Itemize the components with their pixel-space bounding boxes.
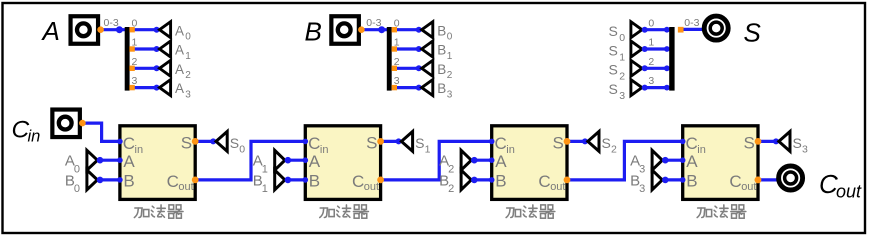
svg-text:A: A [686,152,698,171]
tunnel B3 [416,85,422,91]
tunnel A0 [154,27,160,33]
splitter SP3 bar [669,27,674,91]
tunnel B1 (feeds U2) [288,178,305,181]
tunnel A3 (feeds U4) [665,159,682,162]
svg-text:1: 1 [394,37,400,49]
svg-text:1: 1 [185,51,191,62]
svg-text:A: A [41,16,60,46]
U3 port dot S [564,138,571,145]
tunnel B2 (feeds U3) [474,178,491,181]
svg-text:3: 3 [619,90,625,102]
svg-text:2: 2 [185,70,191,81]
splitter SP2 branch 2 [394,67,419,70]
tunnel S0 (sink) [210,138,216,144]
svg-text:0: 0 [394,17,400,29]
svg-text:2: 2 [619,71,625,83]
tunnel B2 [416,65,422,71]
svg-text:C: C [167,172,179,191]
svg-text:2: 2 [448,183,454,195]
splitter SP1 branch 0 [132,28,157,31]
wire U4 Cout to pin Cout [758,178,777,181]
full-adder subcircuit U3 [492,126,567,200]
U1 label 加法器 (adder) [134,205,183,218]
svg-text:C: C [123,134,135,153]
svg-text:0: 0 [132,17,138,29]
tunnel B0 (feeds U1) [100,178,120,181]
svg-text:2: 2 [648,56,654,68]
svg-text:2: 2 [611,144,617,156]
svg-text:S: S [230,135,239,151]
wire U2 Cout to U3 Cin [381,141,492,180]
splitter SP2 branch 0 [394,28,419,31]
svg-text:3: 3 [185,89,191,100]
svg-text:3: 3 [648,75,654,87]
tunnel S1 (sink) [396,138,402,144]
U3 port dot Cin [489,139,495,145]
svg-text:1: 1 [619,51,625,63]
wire U1 Cout to U2 Cin [195,141,305,180]
svg-text:S: S [793,135,802,151]
svg-text:A: A [175,43,184,58]
U4 port dot Cout [755,177,762,184]
svg-text:0: 0 [619,32,625,44]
splitter SP2 bar [387,27,392,91]
svg-text:B: B [309,171,320,190]
wire U3 S to tunnel S2 [567,140,585,143]
svg-text:S: S [602,135,611,151]
svg-text:in: in [697,144,706,156]
U4 label 加法器 (adder) [697,205,746,218]
U1 port dot S [192,138,199,145]
svg-text:2: 2 [394,56,400,68]
svg-text:1: 1 [425,144,431,156]
svg-text:0: 0 [74,183,80,195]
svg-text:3: 3 [447,89,453,100]
svg-text:A: A [175,23,184,38]
U4 port dot S [755,138,762,145]
svg-text:S: S [609,23,618,39]
U4 port dot Cout [755,177,762,184]
wire B pin to splitter [361,28,388,31]
svg-text:A: A [495,152,507,171]
svg-text:3: 3 [394,75,400,87]
splitter SP3 branch 3 [645,86,670,89]
svg-text:C: C [495,134,507,153]
U1 port dot Cout [192,177,199,184]
svg-text:0: 0 [447,32,453,43]
splitter SP3 branch 2 [645,67,670,70]
splitter SP1 branch 2 [132,67,157,70]
svg-text:out: out [836,182,862,202]
wire U4 S to tunnel S3 [758,140,776,143]
wire junction dot [378,26,385,33]
tunnel A0 (feeds U1) [100,159,120,162]
svg-text:S: S [553,133,564,152]
tunnel A2 (feeds U3) [474,159,491,162]
full-adder subcircuit U1 [120,126,195,200]
svg-text:C: C [352,172,364,191]
splitter SP2 branch 3 [394,86,419,89]
svg-text:0: 0 [185,32,191,43]
port dot (pin B) [358,26,365,33]
svg-text:0: 0 [239,144,245,156]
svg-text:1: 1 [447,51,453,62]
svg-text:S: S [744,18,762,48]
svg-text:S: S [415,135,424,151]
splitter SP1 branch 3 [132,86,157,89]
svg-text:B: B [437,62,446,77]
svg-text:S: S [609,81,618,97]
svg-text:2: 2 [447,70,453,81]
wire U1 S to tunnel S0 [195,140,213,143]
svg-text:B: B [686,171,697,190]
wire U2 S to tunnel S1 [381,140,399,143]
tunnel B3 (feeds U4) [665,178,682,181]
svg-text:1: 1 [262,183,268,195]
output pin Cout [779,166,803,190]
svg-text:B: B [495,171,506,190]
svg-text:C: C [308,134,320,153]
splitter SP1 bar [125,27,130,91]
svg-text:out: out [364,181,379,193]
svg-text:C: C [729,172,741,191]
svg-text:in: in [506,144,515,156]
input pin B [331,16,359,44]
full-adder subcircuit U4 [683,126,758,200]
svg-text:3: 3 [802,144,808,156]
svg-text:A: A [175,81,184,96]
input pin Cin [52,110,80,138]
port dot (pin A) [97,26,104,33]
U3 port dot Cout [564,177,571,184]
U2 label 加法器 (adder) [320,205,369,218]
splitter SP1 branch 1 [132,47,157,50]
svg-text:2: 2 [132,56,138,68]
svg-text:A: A [175,62,184,77]
svg-text:0-3: 0-3 [104,17,119,29]
tunnel B0 [416,27,422,33]
svg-text:S: S [744,133,755,152]
svg-text:B: B [123,171,134,190]
svg-text:in: in [135,144,144,156]
svg-text:B: B [437,81,446,96]
svg-text:C: C [686,134,698,153]
svg-text:S: S [366,133,377,152]
tunnel B1 [416,46,422,52]
svg-text:0: 0 [648,17,654,29]
svg-text:B: B [305,17,322,47]
wire Cin pin to adder 1 [82,123,120,141]
svg-text:B: B [437,43,446,58]
tunnel A3 [154,85,160,91]
wire U3 Cout to U4 Cin [567,141,683,180]
U2 port dot Cout [377,177,384,184]
svg-text:3: 3 [132,75,138,87]
svg-text:out: out [550,181,565,193]
tunnel S2 (sink) [582,138,588,144]
tunnel A2 [154,65,160,71]
U3 label 加法器 (adder) [506,205,555,218]
output pin S [704,16,728,40]
U1 port dot Cin [117,139,123,145]
wire A pin to splitter [100,28,125,31]
svg-text:1: 1 [648,37,654,49]
wire splitter to pin S [681,28,703,31]
svg-text:A: A [123,152,135,171]
full-adder subcircuit U2 [305,126,380,200]
tunnel A1 [154,46,160,52]
svg-text:A: A [309,152,321,171]
svg-text:out: out [741,181,756,193]
svg-text:in: in [320,144,329,156]
svg-text:1: 1 [132,37,138,49]
tunnel A1 (feeds U2) [288,159,305,162]
svg-text:S: S [609,62,618,78]
splitter SP3 branch 1 [645,47,670,50]
svg-text:C: C [538,172,550,191]
svg-text:out: out [178,181,193,193]
tunnel S3 (sink) [773,138,779,144]
U4 port dot Cin [680,139,686,145]
port dot (pin Cin) [79,120,86,127]
svg-text:S: S [181,133,192,152]
wire junction dot [116,26,123,33]
U2 port dot S [377,138,384,145]
splitter SP3 combined port [678,27,684,33]
svg-text:S: S [609,42,618,58]
splitter SP3 branch 0 [645,28,670,31]
input pin A [71,16,99,44]
svg-text:in: in [28,128,41,146]
svg-text:0-3: 0-3 [684,17,699,29]
U2 port dot Cin [303,139,309,145]
splitter SP2 branch 1 [394,47,419,50]
svg-text:B: B [437,23,446,38]
svg-text:3: 3 [639,183,645,195]
